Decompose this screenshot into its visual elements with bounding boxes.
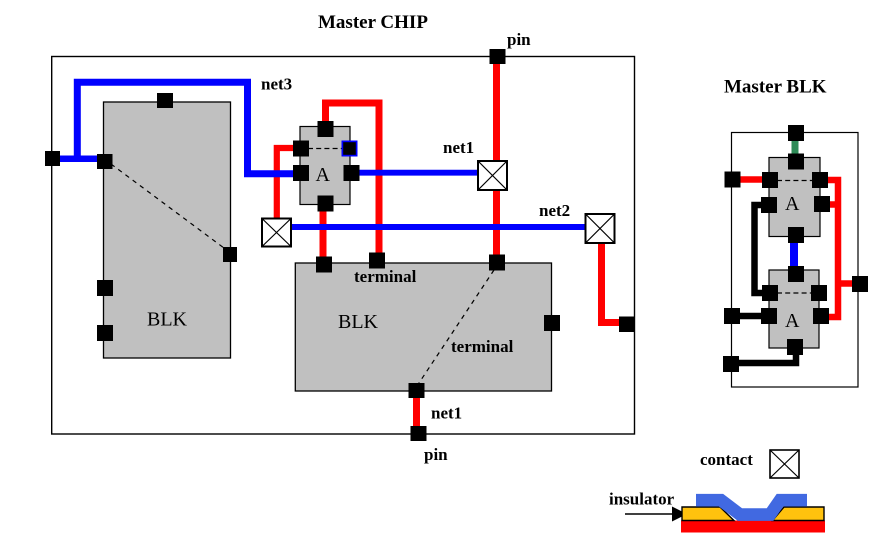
svg-text:BLK: BLK xyxy=(147,309,188,331)
wire red net2 contact to border xyxy=(602,243,626,323)
terminal square BLK1 top xyxy=(157,93,173,108)
svg-text:A: A xyxy=(785,310,800,332)
dashed net in A lower xyxy=(777,292,812,294)
terminal square A top xyxy=(318,121,334,137)
contact net2 xyxy=(586,214,615,243)
pin square bottom xyxy=(411,426,427,441)
dashed net in BLK1 xyxy=(111,164,228,251)
svg-text:Master CHIP: Master CHIP xyxy=(318,12,428,33)
terminal square uA right-mid xyxy=(814,196,830,212)
terminal square lA right-mid xyxy=(813,308,829,324)
terminal square A left-top xyxy=(293,141,309,157)
wire net1 blue A to contact xyxy=(352,170,478,176)
terminal square mblk far-left lower xyxy=(723,356,739,372)
svg-text:pin: pin xyxy=(424,445,448,464)
terminal square mblk far-left upper xyxy=(725,172,741,188)
xsection metal1 red xyxy=(681,521,825,533)
wire net3 blue horizontal stub xyxy=(53,155,99,162)
svg-text:terminal: terminal xyxy=(451,337,514,356)
terminal square uA left-top xyxy=(762,172,778,188)
wire red pin to contact xyxy=(493,60,500,160)
terminal square BLK2 bottom xyxy=(409,383,425,398)
terminal square A bottom xyxy=(318,196,334,212)
legend arrow xyxy=(625,513,676,515)
terminal square mblk top xyxy=(788,125,804,141)
dashed net in A xyxy=(308,148,343,150)
contact net1 xyxy=(478,161,507,190)
svg-text:net3: net3 xyxy=(261,75,292,94)
svg-text:A: A xyxy=(785,193,800,215)
svg-text:pin: pin xyxy=(507,30,531,49)
terminal square BLK2 t2 xyxy=(369,253,385,269)
xsection insulator left xyxy=(682,507,734,521)
master blk boundary xyxy=(732,133,859,388)
wire red terminal to pin bottom xyxy=(413,395,420,430)
block BLK2 xyxy=(295,263,551,391)
terminal square lA bottom xyxy=(787,339,803,355)
terminal square mblk far-left mid xyxy=(724,308,740,324)
wire black upper-left down xyxy=(755,205,766,293)
svg-text:BLK: BLK xyxy=(338,311,379,333)
legend contact symbol xyxy=(770,450,799,478)
wire red A-bottom to terminal xyxy=(320,205,327,262)
svg-text:terminal: terminal xyxy=(354,267,417,286)
terminal square A left-mid xyxy=(293,165,309,181)
xsection metal2 blue xyxy=(696,500,807,514)
instance A upper xyxy=(769,158,820,237)
terminal square BLK1 left net3 xyxy=(97,154,113,169)
wire red stub to border square xyxy=(838,280,854,287)
terminal square uA bottom xyxy=(788,227,804,243)
terminal square uA left-mid xyxy=(761,197,777,213)
block BLK1 xyxy=(104,102,231,358)
wire green top xyxy=(792,140,799,158)
wire red stub right-mid upper xyxy=(828,201,838,208)
terminal square BLK1 dashed end xyxy=(223,247,237,262)
terminal square BLK1 left3 xyxy=(97,325,113,341)
wire net2 blue xyxy=(291,224,585,230)
svg-text:Master BLK: Master BLK xyxy=(724,77,827,98)
terminal square BLK2 right xyxy=(544,315,560,331)
terminal square chip left border xyxy=(45,151,60,166)
wire black left to lower A xyxy=(735,313,764,320)
svg-text:insulator: insulator xyxy=(609,490,675,509)
svg-text:net1: net1 xyxy=(443,138,474,157)
dashed net in A upper xyxy=(777,180,813,182)
wire red A-left to contact xyxy=(277,148,302,220)
wire red A-top over to BLK2 xyxy=(326,103,380,258)
terminal square lA left-mid xyxy=(761,308,777,324)
terminal square lA top xyxy=(788,266,804,282)
terminal square lA left-top xyxy=(762,285,778,301)
instance A xyxy=(300,127,350,205)
wire red contact to terminal xyxy=(493,190,500,260)
terminal square lA right-top xyxy=(811,285,827,301)
xsection insulator right xyxy=(773,507,825,521)
terminal square A right-mid xyxy=(344,165,360,181)
terminal square A right-top selected xyxy=(342,141,358,157)
terminal square uA top xyxy=(788,154,804,170)
terminal square uA right-top xyxy=(812,172,828,188)
wire red left upper xyxy=(738,176,764,183)
wire black bottom hook xyxy=(733,350,796,363)
wire net3 blue xyxy=(77,82,300,174)
terminal square BLK2 t3 xyxy=(489,255,505,271)
svg-text:A: A xyxy=(316,164,331,186)
contact C1 xyxy=(262,219,291,247)
terminal square chip right border xyxy=(619,317,635,333)
svg-text:net2: net2 xyxy=(539,201,570,220)
terminal square BLK1 left2 xyxy=(97,280,113,296)
svg-text:net1: net1 xyxy=(431,404,462,423)
svg-text:contact: contact xyxy=(700,450,753,469)
chip boundary xyxy=(52,57,635,435)
terminal square mblk right border xyxy=(852,276,868,292)
dashed net in BLK2 xyxy=(417,270,494,386)
instance A lower xyxy=(769,270,819,348)
wire blue between A blocks xyxy=(790,240,798,270)
terminal square BLK2 t1 xyxy=(316,257,332,273)
wire red right main xyxy=(826,180,838,317)
pin square top xyxy=(490,49,506,64)
